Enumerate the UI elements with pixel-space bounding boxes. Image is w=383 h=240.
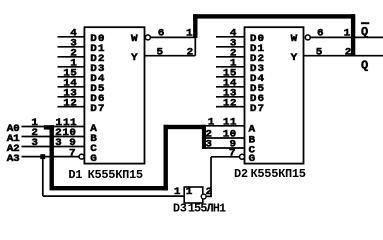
select bus short vertical segment down to D2 C row (202, 125, 206, 149)
svg-text:A3: A3 (7, 153, 20, 164)
wire select bus to D2 pin 9 C (206, 147, 245, 149)
D1 input stub pin 4 (D0) (58, 36, 85, 38)
svg-text:3: 3 (55, 138, 62, 149)
svg-text:1: 1 (174, 186, 181, 197)
D2 inverted output W pin 6 circle (305, 35, 310, 40)
wire select bus to D2 pin 10 B (206, 137, 245, 139)
D1 inverted enable G pin 7 circle (79, 154, 84, 159)
wire D3 output stub (207, 195, 212, 197)
wire A3 to D1 pin 7 G (22, 156, 80, 158)
svg-text:D7: D7 (250, 103, 265, 114)
D2 input stub pin 2 (D2) (216, 56, 245, 58)
svg-text:1: 1 (208, 117, 215, 128)
select bus left vertical segment (50, 125, 54, 188)
junction dot on A3 wire (40, 154, 45, 159)
svg-text:К555КП15: К555КП15 (88, 168, 143, 182)
wire D1 pin5 Y to output bus (145, 55, 196, 57)
D2 input stub pin 1 (D3) (216, 66, 245, 68)
wire A0 to select bus and D1 pin 11 A (22, 126, 85, 128)
svg-text:5: 5 (316, 47, 323, 58)
svg-text:6: 6 (158, 28, 165, 39)
svg-text:Y: Y (291, 52, 299, 63)
D1 input stub pin 2 (D2) (58, 56, 85, 58)
svg-text:7: 7 (69, 148, 76, 159)
svg-text:11: 11 (223, 117, 237, 128)
svg-text:2: 2 (206, 186, 213, 197)
inverter D3 155LN1 box (184, 187, 203, 203)
svg-text:12: 12 (223, 98, 237, 109)
svg-text:Q: Q (361, 25, 368, 39)
select bus middle vertical segment (164, 125, 168, 191)
select bus bottom horizontal segment (50, 186, 168, 190)
output bus left vertical segment (193, 14, 197, 38)
overbar of Qbar (361, 22, 369, 24)
wire A2 to select bus and D1 pin 9 C (22, 146, 85, 148)
D1 input stub pin 12 (D7) (58, 106, 85, 108)
svg-text:G: G (90, 153, 98, 164)
D2 input stub pin 13 (D6) (216, 96, 245, 98)
wire joining W and Y entries at output bus (194, 37, 196, 55)
select bus top entry stub (44, 125, 54, 129)
svg-text:155ЛН1: 155ЛН1 (188, 201, 226, 215)
wire D2 pin6 W to right edge (Qbar) (310, 36, 383, 38)
svg-text:G: G (249, 153, 257, 164)
wire D3 output to D2 G pin 7 (211, 156, 240, 158)
D2 inverted enable G pin 7 circle (240, 154, 245, 159)
D2 input stub pin 14 (D5) (216, 86, 245, 88)
svg-text:W: W (291, 33, 299, 44)
wire to D3 input pin 1 (43, 195, 184, 197)
D1 input stub pin 1 (D3) (58, 66, 85, 68)
wire select bus to D2 pin 11 A (205, 125, 245, 127)
D1 input stub pin 13 (D6) (58, 96, 85, 98)
D2 input stub pin 12 (D7) (216, 106, 245, 108)
output bus right vertical segment (351, 14, 355, 56)
svg-text:3: 3 (31, 138, 38, 149)
svg-text:5: 5 (156, 47, 163, 58)
svg-text:A: A (249, 124, 257, 135)
wire from A3 junction down to D3 (42, 157, 44, 197)
output bus top horizontal segment (193, 14, 355, 18)
D2 input stub pin 4 (D0) (216, 36, 245, 38)
multiplexer D1 K555KP15 box (84, 27, 144, 163)
svg-text:3: 3 (205, 139, 212, 150)
svg-text:1: 1 (344, 28, 351, 39)
svg-text:W: W (131, 33, 139, 44)
wire D2 pin5 Y to right edge (Q) (304, 55, 383, 57)
svg-text:6: 6 (317, 28, 324, 39)
svg-text:12: 12 (63, 98, 77, 109)
svg-text:К555КП15: К555КП15 (251, 167, 306, 181)
D1 input stub pin 15 (D4) (58, 76, 85, 78)
select bus top horizontal segment to D2 (164, 125, 207, 129)
svg-text:2: 2 (345, 47, 352, 58)
multiplexer D2 K555KP15 box (245, 27, 304, 163)
D2 input stub pin 15 (D4) (216, 76, 245, 78)
wire D1 pin6 to output bus (151, 36, 196, 38)
svg-text:Q: Q (361, 58, 368, 72)
D2 input stub pin 3 (D1) (216, 46, 245, 48)
svg-text:D2: D2 (234, 167, 248, 181)
D1 inverted output W pin 6 circle (145, 35, 150, 40)
svg-text:2: 2 (187, 47, 194, 58)
svg-text:D1: D1 (68, 168, 82, 182)
D1 input stub pin 14 (D5) (58, 86, 85, 88)
wire A1 to select bus and D1 pin 10 B (22, 136, 85, 138)
svg-text:D7: D7 (90, 103, 105, 114)
svg-text:1: 1 (186, 186, 193, 197)
D3 output inversion circle (201, 194, 206, 199)
wire D3 output vertical (210, 157, 212, 197)
D1 input stub pin 3 (D1) (58, 46, 85, 48)
svg-text:Y: Y (131, 52, 139, 63)
svg-text:1: 1 (186, 28, 193, 39)
svg-text:D3: D3 (173, 201, 187, 215)
